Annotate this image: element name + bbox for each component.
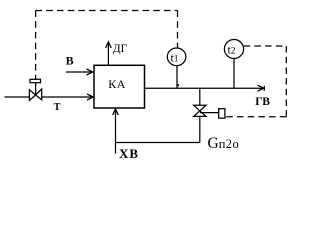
wire bypass vertical below valve G bbox=[199, 117, 201, 143]
svg-text:ГВ: ГВ bbox=[255, 96, 270, 108]
svg-text:ДГ: ДГ bbox=[113, 43, 128, 55]
wire dashed control line t1 to valve left: vertical at x=35.6 bbox=[35, 11, 37, 80]
valve body hourglass (bypass valve G) bbox=[194, 105, 206, 116]
valve stem (left control valve) bbox=[35, 83, 37, 95]
arrowhead DG up bbox=[106, 42, 112, 48]
arrowhead pipe GV bbox=[258, 85, 264, 91]
wire dashed control line t2 to valve G: horizontal at y=46 bbox=[244, 45, 287, 47]
sensor t2 circle bbox=[224, 40, 243, 59]
wire dashed control line t1 to valve left: vertical at x=177.5 bbox=[177, 11, 179, 49]
svg-text:ХВ: ХВ bbox=[119, 146, 139, 161]
wire pipe T right segment into KA bbox=[42, 96, 93, 98]
wire DG vent arrow up from KA top bbox=[107, 42, 109, 65]
svg-text:t1: t1 bbox=[171, 50, 179, 64]
wire dashed control line t1 to valve left: horizontal at y=10.5 bbox=[36, 10, 178, 12]
wire bottom bypass horizontal bbox=[116, 142, 200, 144]
svg-text:В: В bbox=[66, 53, 74, 67]
sensor t1 circle bbox=[167, 48, 186, 66]
junction nub on t1 stem bbox=[177, 84, 179, 86]
wire B inlet arrow into KA bbox=[66, 71, 93, 73]
wire t1 sensor stem bbox=[176, 66, 178, 89]
valve body bowtie (left control valve) bbox=[29, 89, 41, 100]
block KA water heater bbox=[94, 65, 145, 108]
wire dashed control line t2 to valve G: horizontal at y=116.8 bbox=[225, 116, 286, 118]
valve stem to side actuator (bypass valve G) bbox=[200, 112, 219, 114]
wire pipe T left segment bbox=[5, 96, 30, 98]
svg-text:Т: Т bbox=[54, 102, 61, 113]
wire pipe GV from KA right bbox=[145, 87, 264, 89]
svg-text:t2: t2 bbox=[228, 42, 236, 56]
valve actuator box (left control valve) bbox=[30, 79, 41, 82]
svg-text:КА: КА bbox=[108, 77, 126, 91]
svg-text:Gп2о: Gп2о bbox=[208, 135, 240, 152]
wire t2 sensor stem bbox=[233, 58, 235, 88]
arrowhead pipe T into KA bbox=[87, 94, 93, 100]
tick at GV arrow tip bbox=[263, 86, 265, 91]
wire dashed control line t2 to valve G: vertical at x=286.3 bbox=[285, 46, 287, 117]
valve actuator box (bypass valve G) bbox=[219, 109, 225, 119]
wire XB cold water inlet vertical bbox=[115, 109, 117, 154]
wire branch from pipe GV down to valve G bbox=[199, 88, 201, 105]
arrowhead B inlet bbox=[87, 69, 93, 75]
arrowhead XB up into KA bbox=[113, 109, 119, 115]
